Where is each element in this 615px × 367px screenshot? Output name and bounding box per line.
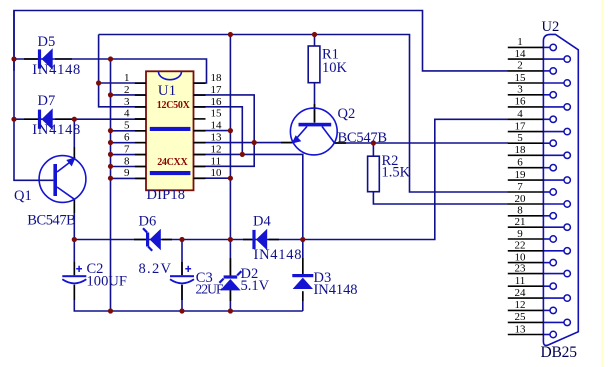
U1 pin 5 stub [135, 130, 146, 132]
svg-text:IN4148: IN4148 [314, 282, 358, 298]
wire stub: Q2 emitter lead [281, 142, 293, 144]
node: bottom rail / D2 [228, 308, 233, 313]
svg-text:18: 18 [211, 72, 223, 84]
svg-text:BC547B: BC547B [338, 130, 388, 146]
zener D2 5.1V [219, 271, 241, 290]
svg-text:5.1V: 5.1V [241, 278, 270, 294]
wire: U1 pin 17 to pin 13 row [194, 95, 254, 143]
svg-text:13: 13 [515, 323, 527, 335]
U2 pin 9 line [508, 238, 544, 240]
transistor Q1 BC547B [39, 156, 86, 203]
IC U1 separator bar top [150, 127, 191, 131]
U2 pin 20 lead [543, 203, 564, 205]
transistor Q2 BC547B [290, 108, 337, 155]
U1 pin 7 stub [135, 154, 146, 156]
svg-text:DIP18: DIP18 [147, 187, 186, 203]
U2 pin 1 line [508, 46, 544, 48]
node: left bus / D5 [11, 56, 16, 61]
svg-text:22: 22 [515, 240, 526, 252]
wire: D2 bottom lead to bottom rail [229, 290, 231, 312]
svg-text:U2: U2 [542, 19, 560, 35]
wire: U1 pin 1 tap [99, 82, 146, 84]
svg-text:22UF: 22UF [196, 281, 224, 296]
wire: R2 bottom lead to DB25 pin 20 [373, 192, 508, 204]
resistor R2 1.5K [368, 156, 380, 192]
svg-text:13: 13 [211, 132, 223, 144]
U2 pin 13 circle [550, 331, 556, 337]
U2 pin 11 line [508, 285, 544, 287]
U2 pin 25 line [508, 321, 544, 323]
U1 pin 3 stub [135, 106, 146, 108]
svg-text:18: 18 [515, 144, 527, 156]
wire: R1 top lead [314, 35, 316, 47]
node: bottom rail / ground bus [108, 308, 113, 313]
U2 pin 4 line [508, 118, 544, 120]
wire stub: Q2 base lead [314, 104, 316, 123]
zener D6 8.2V [143, 228, 161, 251]
U1 pin 12 stub [194, 154, 206, 156]
U2 pin 6 line [508, 167, 544, 169]
wire: D2 top lead from +rail [229, 240, 231, 277]
U1 pin 14 stub [194, 130, 206, 132]
node: W2 / VDD vertical [228, 32, 233, 37]
svg-text:24CXX: 24CXX [157, 157, 188, 168]
svg-text:7: 7 [124, 143, 130, 155]
wire: D3 bottom lead / bottom rail right end [302, 291, 304, 311]
svg-text:11: 11 [515, 275, 526, 287]
U2 pin 17 circle [564, 128, 570, 134]
svg-text:8: 8 [124, 155, 130, 167]
svg-text:7: 7 [517, 181, 523, 193]
U1 pin 13 stub [194, 142, 206, 144]
wire stub: D7 leads [24, 118, 38, 120]
U2 pin 24 circle [564, 295, 570, 301]
svg-text:IN4148: IN4148 [254, 247, 302, 263]
svg-text:19: 19 [515, 169, 527, 181]
wire: U1 pin 8 tap from ground bus [111, 166, 147, 168]
U2 pin 22 line [508, 250, 544, 252]
U2 pin 16 lead [543, 106, 564, 108]
wire: U1 pin 16 to pin 12 row [194, 107, 242, 155]
U2 pin 20 line [508, 203, 544, 205]
svg-text:4: 4 [124, 108, 130, 120]
U2 pin 5 circle [550, 140, 556, 146]
wire: U1 pin 13 row to Q2 emitter [194, 142, 293, 144]
wire: D3 top lead from +rail [302, 240, 304, 276]
node: D7 / Q1 emitter [72, 117, 77, 122]
IC U1 DIP18 body [146, 71, 194, 190]
U1 pin 10 stub [194, 177, 206, 179]
svg-text:3: 3 [517, 84, 523, 96]
U1 pin 8 stub [135, 166, 146, 168]
svg-text:15: 15 [515, 72, 527, 84]
diode D7 1N4148 [38, 108, 53, 130]
svg-text:2: 2 [124, 84, 130, 96]
svg-text:DB25: DB25 [541, 344, 578, 361]
wire: left bus down to Q1 base [14, 11, 53, 181]
wire stub: D4 leads [243, 239, 252, 241]
svg-text:8: 8 [517, 205, 523, 217]
U2 pin 11 lead [543, 285, 550, 287]
svg-text:12: 12 [515, 299, 526, 311]
U2 pin 24 line [508, 297, 544, 299]
U2 pin 3 circle [550, 92, 556, 98]
U2 pin 7 circle [550, 189, 556, 195]
node: +rail / D2 top [228, 237, 233, 242]
U1 pin 4 stub [135, 118, 146, 120]
U2 pin 4 lead [543, 118, 550, 120]
wire: U1 pin 12 row down to +rail and D3 [194, 154, 303, 239]
wire: +rail from Q1 collector to DB25 pin 4 [74, 119, 508, 239]
svg-text:24: 24 [515, 287, 527, 299]
U1 pin 18 stub [194, 82, 206, 84]
svg-text:BC547B: BC547B [27, 213, 76, 229]
wire stub: C3 leads [181, 262, 183, 275]
IC U1 separator bar bottom [150, 171, 191, 175]
U2 pin 5 lead [543, 142, 550, 144]
svg-text:1.5K: 1.5K [382, 165, 411, 181]
U2 pin 8 line [508, 215, 544, 217]
svg-text:14: 14 [211, 120, 223, 132]
wire: top rail from left bus to DB25 pin 2 [14, 11, 508, 71]
node: pin5 net / R2 top [371, 140, 376, 145]
U1 pin 9 stub [135, 177, 146, 179]
wire stub: C2 leads [73, 262, 75, 275]
U2 pin 9 circle [550, 236, 556, 242]
node: +rail / C3 top [179, 237, 184, 242]
U2 pin 10 line [508, 262, 544, 264]
wire: U1 pin 2 tap from ground bus [111, 94, 147, 96]
wire: vertical from W2 through U1 pin 14, pin 10 to +rail and D2 [229, 35, 231, 240]
svg-text:Q2: Q2 [338, 106, 356, 122]
U2 pin 21 lead [543, 226, 564, 228]
wire: U1 pin 5 tap from ground bus [111, 130, 147, 132]
node: W2 / R1 top [312, 32, 317, 37]
node: bottom rail / C3 [179, 308, 184, 313]
screen edge artifact line [602, 0, 604, 367]
U2 pin 18 circle [564, 152, 570, 158]
U2 pin 15 circle [564, 80, 570, 86]
svg-text:16: 16 [211, 96, 223, 108]
IC U1 notch [158, 72, 181, 80]
wire: R2 top lead from pin5 net [372, 143, 374, 156]
U1 pin 17 stub [194, 94, 206, 96]
svg-text:D5: D5 [38, 34, 56, 50]
U2 pin 13 line [508, 334, 544, 336]
svg-text:6: 6 [124, 132, 130, 144]
U2 pin 19 circle [564, 177, 570, 183]
U2 pin 1 circle [550, 44, 556, 50]
wire: R1 bottom lead to Q2 base [314, 83, 316, 123]
U2 pin 6 circle [550, 165, 556, 171]
resistor R1 10K [308, 46, 320, 83]
U2 pin 15 lead [543, 82, 564, 84]
svg-text:D7: D7 [38, 93, 56, 109]
svg-text:Q1: Q1 [14, 188, 32, 204]
diode D3 1N4148 [292, 274, 313, 289]
svg-text:23: 23 [515, 262, 527, 274]
svg-text:17: 17 [515, 120, 527, 132]
capacitor C2 100UF [62, 266, 86, 284]
U2 pin 2 circle [550, 68, 556, 74]
wire: U1 pin 10 tap [194, 177, 230, 179]
svg-text:IN4148: IN4148 [32, 122, 80, 138]
wire: C2 top lead from +rail [73, 240, 75, 276]
connector U2 DB25 shell [543, 34, 578, 345]
wire: C3 top lead from +rail [181, 240, 183, 276]
svg-text:10: 10 [211, 167, 223, 179]
node: U1 pin6 / ground bus [108, 140, 113, 145]
U2 pin 3 line [508, 94, 544, 96]
U2 pin 4 circle [550, 116, 556, 122]
U2 pin 12 lead [543, 309, 550, 311]
wire: U1 pin 14 tap [194, 130, 230, 132]
U2 pin 22 lead [543, 250, 564, 252]
wire stub: Q1 collector lead [73, 200, 75, 214]
svg-text:16: 16 [515, 96, 527, 108]
U2 pin 23 circle [564, 270, 570, 276]
diode D4 1N4148 [252, 229, 267, 251]
U2 pin 19 lead [543, 179, 564, 181]
wire: bottom ground rail [74, 285, 302, 311]
U2 pin 20 circle [564, 201, 570, 207]
U2 pin 13 lead [543, 334, 550, 336]
wire: D5 row from left bus to U1 pin 18 via vertical [14, 59, 207, 83]
U2 pin 12 line [508, 309, 544, 311]
wire stub: D3 leads [302, 258, 304, 275]
node: Q1 collector / +rail / C2 [72, 237, 77, 242]
wire stub: D6 leads [134, 239, 146, 241]
U2 pin 21 line [508, 226, 544, 228]
U2 pin 8 lead [543, 215, 550, 217]
capacitor C3 22UF [170, 266, 194, 284]
svg-text:IN4148: IN4148 [32, 62, 80, 78]
wire stub: D2 leads [229, 258, 231, 276]
svg-text:1: 1 [517, 36, 523, 48]
wire stub: Q2 collector lead [335, 142, 346, 144]
node: D5 / ground bus [108, 56, 113, 61]
wire stub: Q1 emitter lead [73, 147, 75, 159]
node: pin13/pin17/pin11 join [252, 140, 257, 145]
U2 pin 16 line [508, 106, 544, 108]
U2 pin 2 line [508, 70, 544, 72]
wire: ground bus x=110.5 from D5 row to bottom rail [110, 59, 112, 311]
svg-text:25: 25 [515, 311, 527, 323]
wire: U1 pin 6 tap from ground bus [111, 142, 147, 144]
U2 pin 21 circle [564, 224, 570, 230]
svg-text:3: 3 [124, 96, 130, 108]
svg-text:1: 1 [124, 72, 130, 84]
U2 pin 18 line [508, 154, 544, 156]
U2 pin 7 line [508, 191, 544, 193]
U2 pin 6 lead [543, 167, 550, 169]
U1 pin 2 stub [135, 94, 146, 96]
node: +rail / D3 top [300, 237, 305, 242]
U1 pin 6 stub [135, 142, 146, 144]
U1 pin 15 stub [194, 118, 206, 120]
wire: W2 rail from x=99 to DB25 pin 7 [99, 35, 508, 193]
U1 pin 16 stub [194, 106, 206, 108]
svg-text:9: 9 [517, 228, 523, 240]
U2 pin 1 lead [543, 46, 550, 48]
node: U1 pin14 / VDD vertical [228, 128, 233, 133]
U2 pin 18 lead [543, 154, 564, 156]
U2 pin 10 lead [543, 262, 550, 264]
U2 pin 11 circle [550, 283, 556, 289]
U2 pin 25 lead [543, 321, 564, 323]
U2 pin 9 lead [543, 238, 550, 240]
svg-text:17: 17 [211, 84, 223, 96]
U1 pin 11 stub [194, 166, 206, 168]
U2 pin 14 circle [564, 56, 570, 62]
svg-text:12: 12 [211, 143, 222, 155]
node: left bus / D7 [11, 117, 16, 122]
node: U1 pin10 / VDD vertical [228, 176, 233, 181]
U2 pin 5 line [508, 142, 544, 144]
U2 pin 24 lead [543, 297, 564, 299]
wire stub: D5 leads [24, 58, 38, 60]
node: U1 pin2 / ground bus [108, 92, 113, 97]
wire: C3 bottom lead [181, 285, 183, 311]
svg-text:21: 21 [515, 216, 526, 228]
svg-text:15: 15 [211, 108, 223, 120]
U2 pin 7 lead [543, 191, 550, 193]
U2 pin 22 circle [564, 248, 570, 254]
node: pin12 / pin16 join [240, 152, 245, 157]
wire: U1 pin 11 up to pin 13 row [194, 143, 254, 167]
svg-text:20: 20 [515, 193, 527, 205]
wire: U1 pin 9 tap from ground bus [111, 177, 147, 179]
U2 pin 14 line [508, 58, 544, 60]
svg-text:2: 2 [517, 60, 523, 72]
U2 pin 23 line [508, 273, 544, 275]
node: U1 pin9 / ground bus [108, 176, 113, 181]
U2 pin 8 circle [550, 213, 556, 219]
U2 pin 23 lead [543, 273, 564, 275]
svg-text:8.2V: 8.2V [139, 261, 172, 277]
node: U1 pin7 / ground bus [108, 152, 113, 157]
svg-text:10K: 10K [322, 60, 348, 76]
svg-text:5: 5 [517, 132, 523, 144]
svg-text:D6: D6 [139, 213, 157, 229]
svg-text:5: 5 [124, 120, 130, 132]
svg-text:4: 4 [517, 108, 523, 120]
svg-text:100UF: 100UF [87, 273, 128, 289]
node: U1 pin1 / VCC bus [96, 80, 101, 85]
wire: Q1 collector vertical down to +rail [73, 199, 75, 239]
svg-text:D4: D4 [253, 213, 271, 229]
wire: Q1 emitter vertical to D7 node [73, 119, 75, 159]
node: U1 pin8 / ground bus [108, 164, 113, 169]
U2 pin 15 line [508, 82, 544, 84]
svg-text:11: 11 [211, 155, 222, 167]
svg-text:12C50X: 12C50X [157, 100, 191, 111]
U2 pin 10 circle [550, 259, 556, 265]
U2 pin 2 lead [543, 70, 550, 72]
svg-text:14: 14 [515, 48, 527, 60]
U2 pin 16 circle [564, 104, 570, 110]
svg-text:9: 9 [124, 167, 130, 179]
U2 pin 17 lead [543, 131, 564, 133]
U2 pin 12 circle [550, 307, 556, 313]
node: U1 pin5 / ground bus [108, 128, 113, 133]
U1 pin 1 stub [135, 82, 146, 84]
U2 pin 3 lead [543, 94, 550, 96]
svg-text:U1: U1 [158, 83, 176, 99]
wire: Q2 collector to DB25 pin 5 [335, 142, 509, 144]
U2 pin 25 circle [564, 319, 570, 325]
diode D5 1N4148 [38, 48, 53, 70]
wire: D7 row from left bus to U1 pin 4 [14, 118, 146, 120]
U2 pin 14 lead [543, 58, 564, 60]
U2 pin 17 line [508, 131, 544, 133]
wire: U1 pin 7 tap from ground bus [111, 154, 147, 156]
svg-text:6: 6 [517, 157, 523, 169]
U2 pin 19 line [508, 179, 544, 181]
wire: VCC bus x=99 from W2 to U1 pin 3, tapping pin 1 [99, 35, 146, 107]
